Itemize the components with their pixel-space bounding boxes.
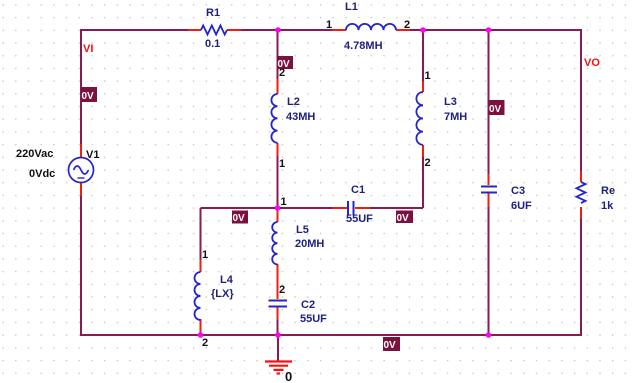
svg-text:L1: L1: [345, 1, 358, 13]
wire C3 branch upper segment: [488, 30, 490, 175]
svg-text:55UF: 55UF: [346, 213, 373, 225]
bias flag 0V at C3: [489, 100, 505, 115]
capacitor C2: [269, 301, 288, 307]
wire Re bottom lead: [580, 207, 582, 219]
svg-text:Re: Re: [601, 185, 615, 197]
svg-text:1: 1: [281, 196, 287, 208]
svg-text:0V: 0V: [384, 340, 397, 351]
svg-text:2: 2: [425, 157, 431, 169]
wire Re top lead: [580, 171, 582, 182]
wire L4 bottom lead: [200, 319, 202, 334]
wire right rail upper segment: [580, 29, 582, 172]
capacitor C1: [348, 201, 354, 216]
junction L1/L3 top: [420, 27, 426, 33]
svg-text:55UF: 55UF: [300, 313, 327, 325]
bias flag 0V on bottom rail: [383, 337, 400, 351]
junction C2/ground bottom: [275, 332, 281, 338]
wire L3 branch upper segment: [422, 30, 424, 82]
wire L3 bottom lead: [422, 145, 424, 157]
wire C3 top lead: [488, 174, 490, 185]
svg-text:R1: R1: [206, 7, 220, 19]
wire L3 branch lower segment: [422, 156, 424, 208]
svg-text:1: 1: [326, 19, 332, 31]
wire C2 bottom lead: [277, 307, 279, 320]
svg-text:VO: VO: [584, 57, 600, 69]
svg-text:L2: L2: [287, 96, 300, 108]
bias flag 0V on middle wire left: [232, 211, 248, 225]
wire L2 branch upper segment: [277, 30, 279, 80]
svg-text:2: 2: [279, 284, 285, 296]
svg-text:{LX}: {LX}: [211, 288, 234, 300]
wire R1 left lead: [188, 29, 201, 31]
svg-text:4.78MH: 4.78MH: [344, 40, 383, 52]
wire C3 branch lower segment: [488, 206, 490, 335]
wire L4 top lead: [200, 260, 202, 272]
wire V1 top lead: [80, 144, 82, 157]
wire top rail middle segment: [240, 29, 333, 31]
junction R1/L2 top: [275, 27, 281, 33]
wire top rail left segment: [80, 29, 189, 31]
wire L2 branch lower segment: [277, 155, 279, 208]
svg-text:C2: C2: [301, 299, 315, 311]
voltage source V1: [69, 158, 94, 183]
svg-text:C3: C3: [511, 185, 525, 197]
inductor L5: [272, 222, 277, 264]
svg-text:0.1: 0.1: [205, 38, 220, 50]
wire middle horizontal right segment: [369, 207, 423, 209]
bias flag 0V on left rail: [81, 87, 97, 102]
svg-text:C1: C1: [351, 184, 365, 196]
inductor L1: [346, 24, 396, 30]
svg-text:2: 2: [202, 337, 208, 349]
wire R1 right lead: [227, 29, 241, 31]
capacitor C3: [481, 187, 497, 193]
wire C1 left lead: [332, 207, 347, 209]
svg-text:0V: 0V: [489, 104, 502, 115]
wire L3 top lead: [422, 81, 424, 92]
svg-text:20MH: 20MH: [295, 238, 324, 250]
svg-text:0V: 0V: [82, 91, 95, 102]
junction L4 bottom: [198, 332, 204, 338]
wire C1 right lead: [355, 207, 370, 209]
wire L5 top lead: [277, 209, 279, 222]
wire L4 branch upper segment: [200, 208, 202, 261]
wire V1 bottom lead: [80, 183, 82, 196]
svg-text:220Vac: 220Vac: [16, 148, 53, 160]
wire top rail right segment: [409, 29, 582, 31]
svg-text:0: 0: [285, 369, 292, 383]
svg-text:6UF: 6UF: [511, 200, 532, 212]
wire left rail upper segment: [80, 29, 82, 145]
svg-text:0V: 0V: [233, 213, 246, 224]
svg-text:L4: L4: [220, 274, 234, 286]
wire L2 top lead: [277, 79, 279, 94]
svg-text:7MH: 7MH: [444, 111, 467, 123]
svg-text:1: 1: [202, 249, 208, 261]
wire C3 bottom lead: [488, 193, 490, 207]
wire middle horizontal left segment: [201, 207, 334, 209]
resistor Re: [577, 182, 586, 203]
svg-text:0Vdc: 0Vdc: [29, 168, 55, 180]
junction L2/L5 middle: [275, 205, 281, 211]
bias flag 0V right of C1: [396, 211, 413, 225]
ground symbol 0: [265, 362, 292, 374]
svg-text:L3: L3: [444, 96, 457, 108]
svg-text:1: 1: [279, 158, 285, 170]
wire left rail lower segment: [80, 195, 82, 336]
wire L1 left lead: [332, 29, 346, 31]
resistor R1: [201, 26, 227, 35]
svg-text:VI: VI: [83, 43, 93, 55]
wire bottom rail: [80, 334, 582, 336]
inductor L3: [416, 92, 423, 145]
wire L2 bottom lead: [277, 143, 279, 156]
svg-text:0V: 0V: [397, 213, 410, 224]
svg-text:2: 2: [279, 67, 285, 79]
junction C3 top: [486, 27, 492, 33]
svg-text:1: 1: [425, 70, 431, 82]
wire right rail lower segment: [580, 218, 582, 336]
wire L5 bottom / C2 top lead: [277, 264, 279, 299]
svg-text:2: 2: [404, 19, 410, 31]
junction C3 bottom: [486, 332, 492, 338]
wire ground stem: [277, 335, 279, 361]
inductor L4: [195, 272, 201, 320]
svg-text:L5: L5: [296, 224, 309, 236]
svg-text:43MH: 43MH: [286, 111, 315, 123]
bias flag 0V at L2 top: [277, 56, 293, 70]
wire C2 bottom segment: [277, 319, 279, 335]
svg-text:1k: 1k: [601, 200, 614, 212]
inductor L2: [271, 94, 277, 143]
svg-text:V1: V1: [86, 149, 99, 161]
wire L1 right lead: [396, 29, 410, 31]
